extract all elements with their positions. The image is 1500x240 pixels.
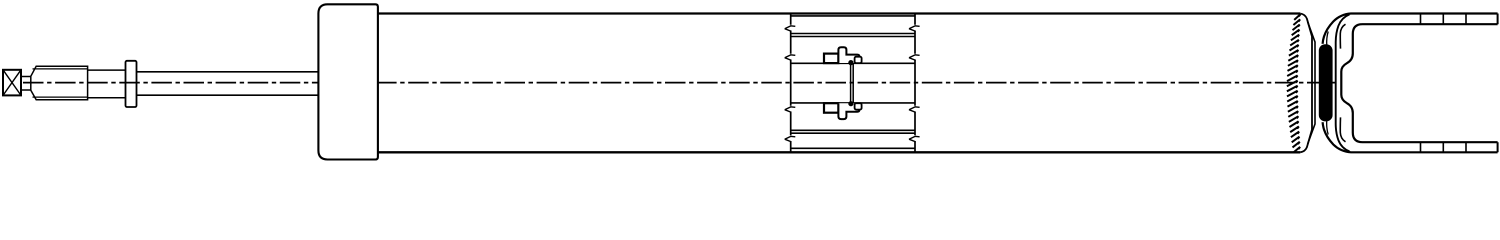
clevis saddle top [1340, 24, 1345, 48]
thread root lines [33, 69, 88, 97]
lower valve plate [824, 103, 838, 113]
clevis arm tick 2 [1442, 14, 1444, 153]
lower stem nut (dot) [848, 101, 853, 106]
neck between box and thread [22, 77, 31, 91]
rod shoulder section [88, 70, 126, 98]
collar ring [126, 61, 137, 107]
threaded end symbol (crossed box) [3, 70, 21, 96]
bushing pinch top [1327, 32, 1329, 47]
sleeve right wall break marks [909, 26, 920, 142]
upper valve body [838, 47, 859, 63]
clevis neck edge behind bushing [1336, 14, 1350, 151]
cylinder tube bottom wall [378, 151, 1300, 153]
sleeve left wall [790, 14, 792, 153]
centerline axis [23, 82, 1336, 84]
valve stem [851, 63, 854, 103]
sleeve right wall [914, 14, 916, 153]
upper valve plate [824, 54, 838, 64]
upper valve foot [855, 57, 862, 63]
sleeve internal lines [791, 16, 915, 148]
rod guide block [318, 4, 378, 159]
cylinder tube top wall [378, 12, 1300, 14]
clevis inner contour (fork opening) [1341, 24, 1497, 142]
lower valve foot [855, 103, 862, 109]
clevis arm tick 1 [1420, 14, 1422, 153]
bushing pinch bottom [1327, 120, 1329, 135]
threaded stem outline [31, 66, 88, 100]
piston rod [137, 72, 319, 95]
upper stem nut (dot) [848, 60, 853, 65]
lower valve body [838, 103, 859, 119]
end cap inner profile [1308, 22, 1315, 144]
end cap outer profile [1300, 14, 1312, 153]
clevis end closure [1497, 14, 1499, 153]
rubber bushing (black capsule) [1319, 44, 1333, 121]
crimped end serration [1287, 14, 1301, 152]
clevis saddle bottom [1340, 117, 1345, 141]
clevis arm tick 3 [1465, 14, 1467, 153]
clevis outer contour [1323, 14, 1498, 153]
sleeve left wall break marks [785, 26, 796, 142]
